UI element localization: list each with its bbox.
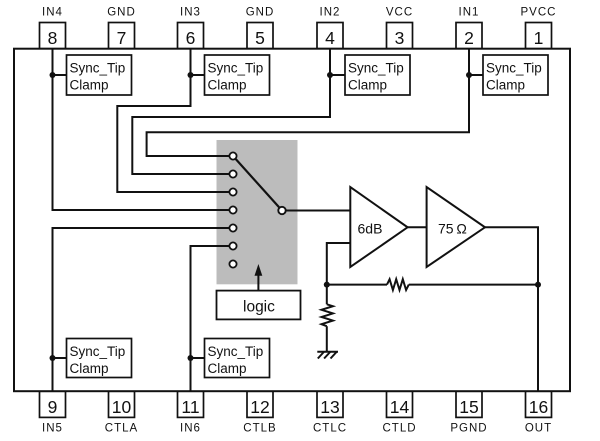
mux contact 1 [229, 152, 236, 159]
junction dot feedback left [324, 282, 330, 288]
svg-text:13: 13 [320, 397, 339, 417]
switch arm [233, 156, 282, 211]
wire IN6: pin11 up to mux [190, 246, 229, 391]
svg-text:Clamp: Clamp [69, 361, 108, 376]
svg-text:IN4: IN4 [42, 6, 63, 18]
mux common contact [278, 207, 285, 214]
svg-text:5: 5 [255, 28, 265, 48]
pin 5 box [247, 22, 273, 48]
junction dot pin8/sync [50, 72, 56, 78]
svg-text:PGND: PGND [450, 423, 487, 435]
svg-text:logic: logic [243, 298, 275, 315]
svg-text:CTLA: CTLA [105, 422, 138, 434]
svg-text:Sync_Tip: Sync_Tip [208, 60, 264, 75]
svg-text:Sync_Tip: Sync_Tip [69, 344, 125, 359]
pin 1 box [526, 23, 552, 49]
svg-text:4: 4 [325, 28, 335, 48]
svg-text:11: 11 [181, 397, 199, 417]
pin 10 box [108, 391, 134, 417]
pin 8 box [40, 22, 66, 48]
svg-text:IN1: IN1 [459, 7, 480, 19]
resistor R1 feedback (horizontal zigzag) [387, 279, 409, 290]
wire shunt resistor bottom lead [326, 326, 328, 352]
sync tip clamp box 2 [205, 55, 270, 95]
mux contact 6 [229, 242, 236, 249]
logic box [216, 291, 300, 320]
wire IN2: pin4 down, left, down to mux [132, 49, 330, 174]
svg-text:Sync_Tip: Sync_Tip [207, 344, 263, 359]
op-amp 6dB [350, 187, 407, 267]
wire IN3: pin6 down, left, down to mux [117, 49, 229, 192]
svg-text:3: 3 [395, 28, 405, 48]
mux contact 2 [229, 170, 236, 177]
svg-text:7: 7 [117, 28, 127, 48]
svg-text:PVCC: PVCC [521, 7, 557, 19]
svg-text:GND: GND [107, 6, 136, 18]
svg-text:CTLB: CTLB [243, 422, 276, 434]
sync tip clamp box 3 [345, 55, 410, 95]
mux contact 5 [229, 224, 236, 231]
pin 13 box [317, 391, 343, 417]
wire IN5: pin9 up to mux [52, 228, 229, 391]
mux contact 7 unused [229, 260, 236, 267]
pin 7 box [109, 22, 135, 48]
junction dot pin2/sync [466, 72, 472, 78]
svg-text:8: 8 [48, 28, 58, 48]
svg-text:GND: GND [246, 6, 275, 18]
svg-text:IN5: IN5 [42, 422, 63, 434]
wire stub sync box 5 [52, 357, 66, 359]
IC outline rectangle [14, 49, 570, 392]
junction dot pin9/sync [49, 355, 55, 361]
svg-text:VCC: VCC [386, 7, 413, 19]
sync tip clamp box 6 [204, 338, 269, 377]
pin 16 box [525, 391, 551, 417]
wire stub sync box 3 [330, 74, 345, 76]
svg-text:Clamp: Clamp [348, 77, 387, 92]
svg-text:6: 6 [186, 28, 196, 48]
mux gray region [216, 140, 297, 284]
svg-text:75 Ω: 75 Ω [438, 221, 467, 237]
svg-text:IN6: IN6 [180, 422, 201, 434]
wire IN4: pin8 down to mux [53, 49, 230, 210]
svg-text:Clamp: Clamp [207, 361, 246, 376]
op-amp 75 ohm buffer [427, 187, 485, 267]
resistor R2 shunt (vertical zigzag) [321, 304, 332, 326]
svg-text:1: 1 [534, 28, 544, 48]
junction dot pin4/sync [327, 72, 333, 78]
wire 6dB output to 75ohm input [408, 226, 427, 228]
svg-text:14: 14 [390, 397, 410, 417]
wire shunt resistor top lead [326, 285, 328, 305]
svg-text:Sync_Tip: Sync_Tip [70, 60, 126, 75]
svg-text:16: 16 [529, 397, 548, 417]
svg-text:IN3: IN3 [180, 6, 201, 18]
wire stub sync box 2 [191, 74, 205, 76]
ground symbol [317, 352, 338, 359]
pin 9 box [39, 391, 65, 417]
pin 3 box [387, 23, 413, 49]
pin 11 box [177, 391, 203, 417]
mux contact 4 [229, 206, 236, 213]
svg-text:Clamp: Clamp [486, 77, 525, 92]
svg-text:CTLC: CTLC [313, 423, 347, 435]
junction dot pin6/sync [188, 72, 194, 78]
sync tip clamp box 1 [67, 55, 132, 95]
wire 75ohm output right then down to pin16 OUT [485, 227, 538, 391]
svg-text:Clamp: Clamp [70, 77, 109, 92]
junction dot feedback right [535, 282, 541, 288]
sync tip clamp box 5 [66, 338, 131, 377]
junction dot pin11/sync [187, 355, 193, 361]
wire stub sync box 6 [190, 357, 204, 359]
wire feedback tap from 6dB input side [327, 243, 351, 285]
wire stub sync box 4 [469, 74, 483, 76]
sync tip clamp box 4 [483, 55, 548, 95]
wire IN1: pin2 down, left, down to mux [147, 49, 469, 156]
svg-text:IN2: IN2 [320, 7, 341, 19]
pin 6 box [178, 22, 204, 48]
svg-text:OUT: OUT [525, 423, 552, 435]
pin 2 box [456, 23, 482, 49]
pin 14 box [386, 391, 412, 417]
svg-text:15: 15 [459, 397, 478, 417]
svg-text:Sync_Tip: Sync_Tip [348, 60, 404, 75]
svg-text:10: 10 [112, 397, 132, 417]
logic arrowhead [254, 264, 262, 276]
wire feedback bottom right segment [409, 284, 538, 286]
wire feedback bottom left segment [327, 284, 387, 286]
pin 15 box [456, 391, 482, 417]
wire common contact to 6dB amp input [286, 209, 351, 211]
svg-text:CTLD: CTLD [382, 423, 416, 435]
pin 4 box [317, 23, 343, 49]
wire stub sync box 1 [53, 74, 67, 76]
svg-text:6dB: 6dB [357, 221, 382, 237]
svg-text:12: 12 [250, 397, 269, 417]
svg-text:2: 2 [464, 28, 474, 48]
pin 12 box [247, 391, 273, 417]
svg-text:Sync_Tip: Sync_Tip [486, 60, 542, 75]
mux contact 3 [229, 188, 236, 195]
svg-text:Clamp: Clamp [208, 77, 247, 92]
logic arrow shaft [257, 273, 259, 291]
svg-text:9: 9 [48, 397, 58, 417]
